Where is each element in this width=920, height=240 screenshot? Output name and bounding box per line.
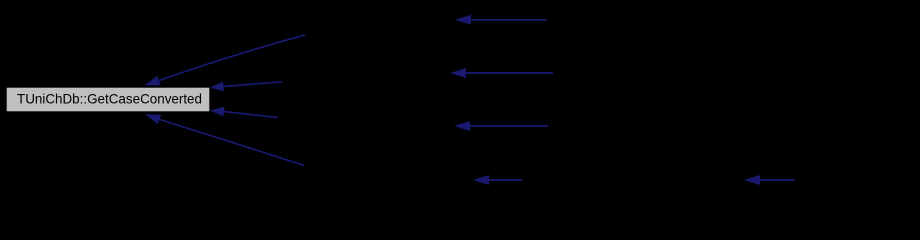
svg-text:TUniChDb::GetCaseConverted: TUniChDb::GetCaseConverted [17,91,202,107]
